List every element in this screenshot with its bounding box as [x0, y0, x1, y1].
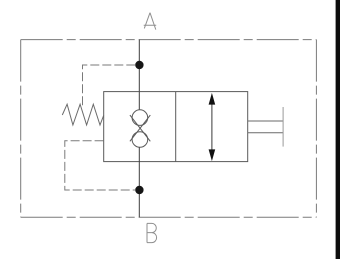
node junction bottom: [135, 186, 143, 194]
valve seats (crossed): [130, 115, 150, 141]
enclosure boundary top edge (phantom line): [21, 39, 317, 41]
check ball top: [132, 110, 148, 126]
enclosure boundary left edge (phantom line): [20, 40, 22, 218]
flow arrow stem: [211, 97, 213, 157]
pilot line lower (dashed): [65, 141, 136, 190]
wire inside to top ball: [138, 92, 140, 110]
flow arrowhead up: [209, 93, 216, 105]
flow arrowhead down: [209, 149, 216, 161]
blocked port line upper: [248, 120, 283, 122]
envelope divider: [175, 92, 177, 162]
wire below bottom ball: [138, 147, 140, 161]
enclosure boundary bottom edge (phantom line): [21, 216, 317, 218]
enclosure boundary right edge (phantom line): [315, 40, 317, 218]
wire B: valve to port B: [138, 162, 140, 218]
scan edge bar: [336, 0, 340, 259]
port label A: [144, 13, 157, 30]
port label B: [147, 223, 157, 242]
pilot line upper (dashed): [83, 65, 136, 106]
wire A: port A to valve: [138, 40, 140, 92]
blocked port end bar: [282, 107, 284, 147]
blocked port line lower: [248, 132, 283, 134]
spring: [62, 104, 103, 125]
check ball bottom: [132, 132, 148, 148]
node junction top: [135, 61, 143, 69]
valve body envelope: [104, 92, 248, 162]
